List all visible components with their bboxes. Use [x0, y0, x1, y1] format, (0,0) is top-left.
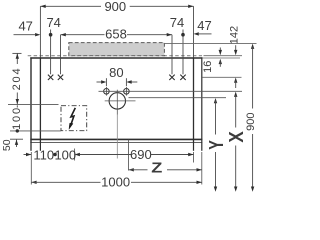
right leg: [193, 142, 195, 150]
1000 row: [31, 181, 36, 184]
Z left ext (faucet right hole): [128, 140, 130, 171]
drain center lines: [105, 100, 136, 102]
svg-text:690: 690: [130, 147, 152, 162]
faucet line y=91.3: [99, 90, 243, 92]
left panel outer: [30, 57, 32, 142]
dot left: [49, 33, 53, 37]
left outer ext: [30, 152, 32, 185]
bottom row extension lines: [31, 140, 202, 185]
110 / 100 / 690 row: [24, 154, 32, 156]
bottom edge thin: [30, 141, 202, 143]
faucet holes: [104, 89, 110, 95]
drain hole (big circle): [109, 93, 125, 109]
Z row: [129, 168, 134, 171]
80 faucet-hole dimension: [97, 78, 138, 86]
svg-text:658: 658: [105, 27, 127, 42]
X chain arrows: [234, 78, 237, 83]
svg-text:204: 204: [11, 67, 23, 91]
top edge: [30, 57, 202, 59]
left panel inner: [39, 57, 41, 142]
svg-text:1000: 1000: [101, 174, 130, 189]
line y=97.7 (Y reference): [129, 97, 227, 99]
line from box bottom to left, with dot: [10, 130, 61, 132]
right inner ext: [193, 152, 195, 163]
washbasin ceramic block (gray): [69, 43, 165, 56]
svg-text:47: 47: [18, 19, 32, 34]
658 dimension: [61, 34, 173, 36]
cabinet body: [30, 57, 202, 150]
47 left dimension: [14, 34, 36, 36]
svg-text:74: 74: [170, 15, 184, 30]
svg-text:900: 900: [104, 0, 126, 14]
lightning bolt: [71, 108, 75, 124]
47 right dimension: [199, 33, 212, 35]
svg-text:Z: Z: [151, 160, 162, 176]
left leg: [30, 142, 32, 150]
svg-text:47: 47: [197, 18, 211, 33]
110/100 tick: [74, 149, 76, 161]
svg-text:50: 50: [1, 139, 13, 151]
right panel inner: [193, 57, 195, 142]
204 dimension (left): [12, 52, 21, 54]
svg-text:142: 142: [229, 26, 241, 44]
extension line y=104.6: [8, 104, 59, 106]
dot right: [181, 33, 185, 37]
svg-text:Y: Y: [205, 140, 228, 150]
bottom edge thick: [30, 138, 202, 140]
right outer ext: [201, 152, 203, 185]
hole extension lines + dots (top row): [51, 30, 183, 75]
900 right dimension: [251, 44, 254, 49]
svg-text:100: 100: [11, 106, 23, 130]
16 dimension (right): [219, 48, 221, 53]
svg-text:80: 80: [109, 65, 123, 80]
svg-text:16: 16: [202, 61, 214, 73]
mounting holes (x marks): [48, 75, 186, 80]
svg-text:110: 110: [33, 147, 54, 162]
electrical zone dash-dot box: [61, 106, 87, 131]
svg-text:74: 74: [46, 15, 60, 30]
svg-text:X: X: [224, 131, 247, 143]
900 top dimension: [40, 6, 193, 57]
svg-text:100: 100: [54, 147, 76, 162]
svg-text:900: 900: [245, 113, 257, 131]
right panel outer: [201, 57, 203, 142]
50 dimension (left bottom): [10, 138, 23, 140]
right side extension lines: [164, 43, 257, 77]
Y dimension: [214, 98, 217, 103]
wall dashed line: [28, 55, 202, 57]
